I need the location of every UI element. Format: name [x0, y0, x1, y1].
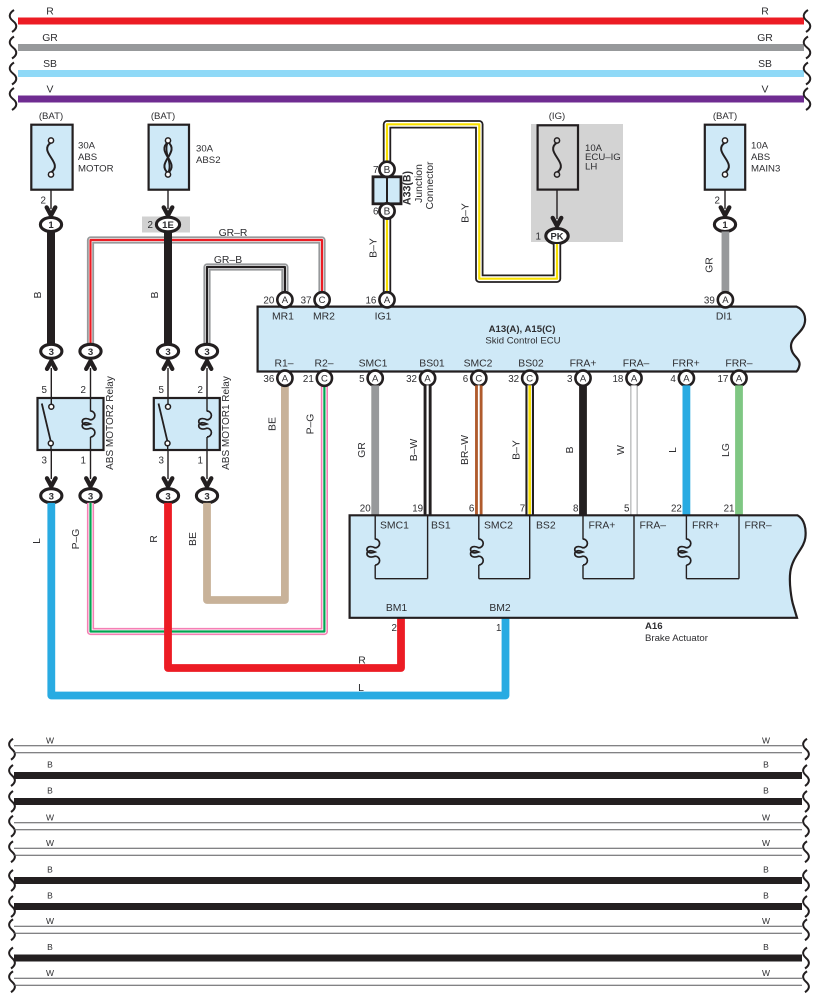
svg-text:W: W	[46, 813, 54, 823]
svg-text:LG: LG	[721, 443, 732, 457]
bus wire W (bottom row 1)	[9, 736, 809, 760]
relay ABS MOTOR1	[154, 376, 232, 470]
svg-text:B: B	[47, 942, 53, 952]
ECU pin 6 (SMC2)	[463, 371, 487, 386]
connector 3 (x=90.5, below relay)	[80, 489, 101, 503]
svg-text:W: W	[616, 445, 627, 455]
svg-text:A: A	[282, 295, 289, 306]
svg-text:ABS2: ABS2	[196, 155, 221, 166]
relay pin numbers 3 and 1	[42, 456, 203, 467]
svg-text:L: L	[358, 683, 364, 694]
svg-text:30A: 30A	[78, 141, 96, 152]
svg-text:SB: SB	[43, 59, 57, 70]
svg-text:32: 32	[508, 374, 519, 385]
svg-text:20: 20	[263, 295, 274, 306]
svg-text:A16: A16	[645, 621, 663, 632]
svg-text:1: 1	[536, 232, 541, 243]
svg-text:P–G: P–G	[71, 529, 82, 550]
svg-text:FRR–: FRR–	[745, 521, 772, 532]
svg-text:3: 3	[49, 347, 54, 358]
svg-text:A: A	[736, 374, 743, 385]
svg-text:2: 2	[198, 385, 203, 396]
svg-text:V: V	[47, 85, 54, 96]
svg-text:FRR–: FRR–	[725, 359, 752, 370]
svg-text:A: A	[722, 295, 729, 306]
bus wire W (bottom row 8)	[9, 916, 809, 940]
connector 3 (x=51.3, above relay)	[41, 344, 62, 358]
bus wire W (bottom row 4)	[9, 813, 809, 837]
connector 1 (below ABS MAIN3 fuse)	[714, 218, 735, 232]
actuator top pin numbers	[360, 504, 735, 515]
bus wire R (top)	[10, 7, 811, 33]
bus wire GR (top)	[10, 33, 811, 59]
fuse 30A ABS MOTOR	[31, 111, 113, 190]
svg-text:ABS: ABS	[751, 152, 770, 163]
svg-text:B: B	[47, 865, 53, 875]
brake actuator A16 box	[350, 515, 806, 644]
wire L (FRR+)	[668, 385, 686, 515]
svg-text:BS2: BS2	[536, 521, 556, 532]
svg-text:37: 37	[301, 295, 312, 306]
connector 3 (x=51.3, below relay)	[41, 489, 62, 503]
svg-text:ABS MOTOR1 Relay: ABS MOTOR1 Relay	[221, 376, 232, 470]
fuse 2 lead and arrow	[164, 190, 173, 216]
wire GR (SMC1)	[357, 385, 375, 515]
fuse 4 pin 2 lead and arrow	[715, 190, 730, 216]
svg-text:FRA–: FRA–	[640, 521, 667, 532]
bus wire B (bottom row 6)	[9, 865, 809, 892]
connector 3 (x=207, above relay)	[196, 344, 217, 358]
svg-text:3: 3	[159, 456, 165, 467]
connector 3 (x=168, above relay)	[157, 344, 178, 358]
svg-text:R: R	[761, 7, 769, 18]
fuse 3 lead and arrow	[553, 190, 562, 226]
wire W (FRA-)	[616, 385, 634, 515]
svg-text:Connector: Connector	[425, 161, 436, 209]
svg-text:B: B	[47, 760, 53, 770]
ECU pin 21 (R2-)	[303, 371, 332, 386]
svg-text:A: A	[424, 374, 431, 385]
svg-text:3: 3	[165, 347, 170, 358]
wire BE (ABS MOTOR1 relay pin 1 to ECU R1-)	[188, 385, 285, 600]
connector 1 (below ABS MOTOR fuse)	[40, 218, 61, 232]
wire B-Y (junction connector to IG1)	[369, 219, 388, 293]
svg-text:2: 2	[392, 623, 397, 634]
svg-text:B: B	[763, 942, 769, 952]
svg-text:W: W	[762, 736, 770, 746]
leads with arrows from relay pins 3/1 down to connectors 3	[47, 450, 211, 486]
svg-text:A: A	[580, 374, 587, 385]
svg-text:(BAT): (BAT)	[151, 111, 175, 122]
svg-text:B: B	[150, 291, 161, 298]
svg-text:W: W	[762, 813, 770, 823]
bus wire V (top)	[10, 85, 811, 111]
connector 1 PK	[536, 229, 569, 244]
ECU pin 18 (FRA-)	[612, 371, 641, 386]
svg-text:B: B	[763, 891, 769, 901]
svg-text:2: 2	[715, 196, 720, 207]
svg-text:MR1: MR1	[272, 312, 294, 323]
wire GR-B (MR1 to ABS MOTOR1 relay coil)	[207, 255, 285, 344]
svg-text:B–Y: B–Y	[369, 238, 380, 258]
svg-text:FRA+: FRA+	[589, 521, 616, 532]
svg-text:5: 5	[359, 374, 365, 385]
bus wire B (bottom row 3)	[9, 786, 809, 813]
svg-text:1E: 1E	[162, 220, 174, 231]
svg-text:B: B	[33, 291, 44, 298]
svg-text:Brake Actuator: Brake Actuator	[645, 633, 709, 644]
bus wire B (bottom row 7)	[9, 891, 809, 918]
svg-text:16: 16	[365, 295, 376, 306]
actuator solenoid SMC2-BS2	[471, 515, 530, 578]
svg-text:GR: GR	[705, 257, 716, 273]
wire GR-R (MR2 to ABS MOTOR2 relay coil)	[91, 228, 323, 344]
svg-text:W: W	[762, 916, 770, 926]
svg-text:B–Y: B–Y	[512, 440, 523, 460]
svg-text:FRA+: FRA+	[570, 359, 597, 370]
svg-text:(IG): (IG)	[549, 111, 566, 122]
connector 3 (x=168, below relay)	[157, 489, 178, 503]
connector 1E (below ABS2 fuse)	[142, 217, 190, 233]
svg-text:SMC1: SMC1	[380, 521, 409, 532]
bus wire W (bottom row 10)	[9, 968, 809, 992]
svg-text:(BAT): (BAT)	[713, 111, 737, 122]
svg-text:GR–R: GR–R	[219, 228, 248, 239]
ECU pin 4 (FRR+)	[670, 371, 694, 386]
bus wire B (bottom row 2)	[9, 760, 809, 787]
actuator solenoid FRA	[575, 515, 634, 578]
svg-text:W: W	[46, 968, 54, 978]
svg-text:V: V	[762, 85, 769, 96]
svg-text:3: 3	[88, 491, 93, 502]
relay ABS MOTOR2	[38, 376, 116, 470]
svg-text:1: 1	[496, 623, 501, 634]
ECU bottom pin labels	[274, 359, 752, 370]
leads with arrows from relay pins 5/2 up to connectors 3	[47, 361, 211, 398]
svg-text:R: R	[358, 656, 366, 667]
svg-text:ABS: ABS	[78, 152, 97, 163]
svg-text:5: 5	[624, 504, 630, 515]
svg-text:W: W	[46, 736, 54, 746]
svg-text:C: C	[475, 374, 482, 385]
ECU pin 16 (IG1)	[365, 292, 394, 307]
svg-text:W: W	[46, 916, 54, 926]
svg-text:SB: SB	[758, 59, 772, 70]
svg-text:6: 6	[469, 504, 475, 515]
svg-text:SMC2: SMC2	[484, 521, 513, 532]
svg-text:19: 19	[412, 504, 423, 515]
svg-text:B–W: B–W	[409, 439, 420, 462]
svg-text:IG1: IG1	[375, 312, 392, 323]
svg-text:R1–: R1–	[274, 359, 293, 370]
actuator pin labels	[380, 521, 772, 532]
svg-text:LH: LH	[585, 161, 597, 172]
actuator BM1/BM2 labels and pin numbers	[386, 603, 511, 634]
svg-text:B: B	[565, 446, 576, 453]
svg-text:BE: BE	[188, 532, 199, 546]
svg-text:B–Y: B–Y	[461, 203, 472, 223]
svg-text:1: 1	[81, 456, 86, 467]
svg-text:7: 7	[520, 504, 525, 515]
connector 3 (x=90.5, above relay)	[80, 344, 101, 358]
wire BR-W (SMC2)	[460, 385, 479, 515]
relay pin numbers 5 and 2	[42, 385, 203, 396]
ECU pin 32 (BS02)	[508, 371, 537, 386]
svg-text:W: W	[46, 838, 54, 848]
ECU pin 37 (MR2)	[301, 292, 330, 307]
svg-text:BS02: BS02	[518, 359, 544, 370]
svg-text:B: B	[384, 165, 391, 176]
svg-text:SMC2: SMC2	[464, 359, 493, 370]
svg-text:A: A	[683, 374, 690, 385]
junction pin 7 circle B	[373, 162, 395, 177]
wire B (connector 1E to ABS MOTOR1 relay pin 5)	[150, 232, 168, 344]
fuse 10A ABS MAIN3	[705, 111, 781, 190]
svg-text:MOTOR: MOTOR	[78, 164, 114, 175]
wire B (FRA+)	[565, 385, 583, 515]
svg-text:3: 3	[88, 347, 93, 358]
svg-text:21: 21	[303, 374, 314, 385]
ECU pin 32 (BS01)	[406, 371, 435, 386]
svg-text:FRR+: FRR+	[692, 521, 719, 532]
svg-text:B: B	[47, 891, 53, 901]
svg-text:21: 21	[724, 504, 735, 515]
svg-text:GR–B: GR–B	[214, 255, 242, 266]
bus wire B (bottom row 9)	[9, 942, 809, 969]
svg-text:A: A	[384, 295, 391, 306]
wire B-Y (BS02 to BS2)	[512, 385, 530, 515]
svg-text:C: C	[321, 374, 328, 385]
svg-text:3: 3	[204, 491, 209, 502]
svg-text:3: 3	[165, 491, 170, 502]
ECU pin 36 (R1-)	[263, 371, 292, 386]
svg-text:8: 8	[573, 504, 579, 515]
ECU pin 39 (DI1)	[704, 292, 733, 307]
svg-text:C: C	[319, 295, 326, 306]
wire R (ABS MOTOR1 relay pin 3 to brake actuator BM1)	[149, 503, 401, 668]
svg-text:5: 5	[42, 385, 48, 396]
svg-text:BE: BE	[268, 417, 279, 431]
svg-text:BS1: BS1	[431, 521, 451, 532]
svg-text:PK: PK	[550, 231, 563, 242]
ECU pin 17 (FRR-)	[717, 371, 746, 386]
bus wire W (bottom row 5)	[9, 838, 809, 862]
svg-text:(BAT): (BAT)	[39, 111, 63, 122]
svg-text:2: 2	[41, 196, 46, 207]
svg-text:R: R	[46, 7, 54, 18]
wire L (ABS MOTOR2 relay pin 3 to brake actuator BM2)	[32, 503, 506, 696]
svg-text:Skid Control ECU: Skid Control ECU	[485, 336, 560, 347]
svg-text:36: 36	[263, 374, 274, 385]
svg-text:22: 22	[671, 504, 682, 515]
svg-text:B: B	[763, 786, 769, 796]
svg-text:SMC1: SMC1	[359, 359, 388, 370]
svg-text:DI1: DI1	[716, 312, 732, 323]
svg-text:R2–: R2–	[314, 359, 333, 370]
svg-text:A: A	[282, 374, 289, 385]
svg-text:A13(A), A15(C): A13(A), A15(C)	[489, 324, 556, 335]
svg-text:BS01: BS01	[419, 359, 445, 370]
svg-text:L: L	[668, 447, 679, 453]
ECU pin 20 (MR1)	[263, 292, 292, 307]
svg-text:A: A	[372, 374, 379, 385]
svg-text:20: 20	[360, 504, 371, 515]
fuse 10A ECU-IG LH	[538, 111, 621, 190]
bus wire SB (top)	[10, 59, 811, 85]
svg-text:B: B	[47, 786, 53, 796]
svg-text:Junction: Junction	[414, 164, 425, 203]
svg-text:GR: GR	[42, 33, 58, 44]
svg-text:GR: GR	[757, 33, 773, 44]
shaded panel (ECU-IG fuse area)	[531, 124, 623, 242]
svg-text:1: 1	[722, 220, 728, 231]
svg-text:B: B	[763, 865, 769, 875]
svg-text:3: 3	[49, 491, 54, 502]
wire GR (ABS MAIN3 fuse to ECU DI1)	[705, 232, 726, 293]
svg-text:GR: GR	[357, 442, 368, 458]
svg-text:2: 2	[148, 220, 153, 231]
svg-text:6: 6	[463, 374, 469, 385]
wire B-Y (connector PK to junction connector)	[387, 124, 557, 278]
junction pin 6 circle B	[373, 203, 395, 218]
svg-text:10A: 10A	[751, 141, 769, 152]
svg-text:FRA–: FRA–	[623, 359, 650, 370]
svg-text:4: 4	[670, 374, 676, 385]
svg-text:A33(B): A33(B)	[402, 171, 414, 205]
wire LG (FRR-)	[721, 385, 739, 515]
junction connector A33(B)	[373, 161, 436, 209]
connector 3 (x=207, below relay)	[196, 489, 217, 503]
svg-text:L: L	[32, 538, 43, 544]
svg-text:B: B	[384, 207, 391, 218]
svg-text:P–G: P–G	[306, 414, 317, 435]
actuator solenoid SMC1-BS1	[367, 515, 428, 578]
svg-text:1: 1	[198, 456, 203, 467]
svg-text:R: R	[149, 535, 160, 543]
ECU top pin labels	[272, 312, 732, 323]
ECU pin 3 (FRA+)	[567, 371, 591, 386]
svg-text:ABS MOTOR2 Relay: ABS MOTOR2 Relay	[105, 376, 116, 470]
svg-text:W: W	[762, 968, 770, 978]
svg-text:7: 7	[373, 165, 378, 176]
svg-text:A: A	[631, 374, 638, 385]
fuse 1 pin 2 lead and arrow	[41, 190, 56, 216]
svg-text:3: 3	[204, 347, 209, 358]
svg-text:FRR+: FRR+	[672, 359, 699, 370]
svg-text:W: W	[762, 838, 770, 848]
svg-text:MAIN3: MAIN3	[751, 164, 780, 175]
svg-text:MR2: MR2	[313, 312, 335, 323]
svg-text:2: 2	[81, 385, 86, 396]
svg-text:5: 5	[159, 385, 165, 396]
svg-text:32: 32	[406, 374, 417, 385]
actuator solenoid FRR	[678, 515, 739, 578]
svg-text:BM1: BM1	[386, 603, 408, 614]
svg-text:C: C	[526, 374, 533, 385]
fuse 30A ABS2	[149, 111, 221, 190]
svg-text:BM2: BM2	[489, 603, 511, 614]
svg-text:30A: 30A	[196, 144, 214, 155]
wire B-W (BS01 to BS1)	[409, 385, 428, 515]
ECU pin 5 (SMC1)	[359, 371, 383, 386]
svg-text:3: 3	[567, 374, 573, 385]
svg-text:18: 18	[612, 374, 623, 385]
svg-text:39: 39	[704, 295, 715, 306]
svg-text:B: B	[763, 760, 769, 770]
svg-text:17: 17	[717, 374, 728, 385]
svg-text:BR–W: BR–W	[460, 435, 471, 465]
svg-text:3: 3	[42, 456, 48, 467]
wire P-G (ABS MOTOR2 relay pin 1 to ECU R2-)	[71, 385, 324, 631]
svg-text:1: 1	[48, 220, 54, 231]
wire B (fuse 1 to ABS MOTOR2 relay pin 5)	[33, 232, 51, 345]
ECU A13(A), A15(C) Skid Control ECU	[258, 307, 806, 372]
